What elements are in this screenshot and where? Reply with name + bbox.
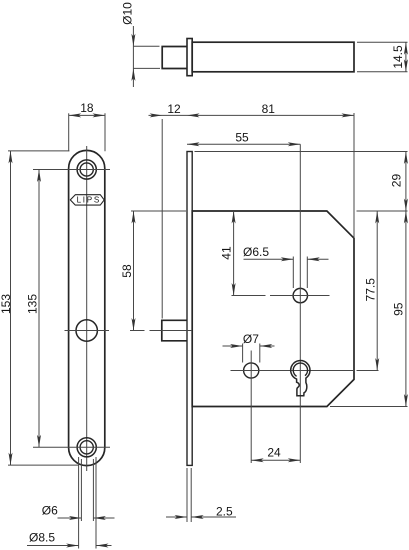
dimension 24 (hole spacing) — [251, 459, 300, 461]
top view: deadbolt nose (round bolt, side profile) — [162, 47, 187, 69]
follower hole O6.5 — [293, 288, 307, 302]
dimension 12 and 81 dimension line — [149, 114, 355, 116]
svg-text:Ø6: Ø6 — [42, 504, 58, 518]
top screw hole outer circle — [77, 160, 96, 179]
fixing hole O7 — [244, 363, 259, 378]
dimension O6 (inner screw hole dia) extension lines — [80, 459, 82, 521]
svg-text:2.5: 2.5 — [216, 504, 233, 518]
faceplate vertical centerline — [86, 146, 88, 471]
dimension 12 (bolt throw) extension line — [161, 119, 163, 319]
dimension O8.5 — [27, 545, 79, 547]
middle hole centerline — [65, 330, 110, 332]
dimension 2.5 (faceplate thickness) extension lines — [186, 468, 188, 522]
svg-text:12: 12 — [167, 102, 181, 116]
svg-text:Ø8.5: Ø8.5 — [29, 531, 55, 545]
dimension O10 (bolt diameter) — [132, 26, 134, 87]
svg-text:Ø6.5: Ø6.5 — [243, 245, 269, 259]
svg-text:95: 95 — [392, 302, 406, 316]
bottom hole centerline — [33, 446, 110, 448]
dimension 29 (faceplate top to case top) — [404, 152, 408, 165]
latch bolt protruding through faceplate — [162, 320, 187, 341]
keyhole outer profile with key bit stem — [291, 361, 310, 396]
dimension 95 (case height) — [404, 211, 408, 224]
dimension 18 (faceplate width) — [68, 113, 70, 151]
extension line from case top — [357, 210, 408, 212]
svg-text:77.5: 77.5 — [364, 278, 378, 302]
top view: faceplate edge-on (flange) — [187, 39, 192, 76]
keyhole horizontal centerline — [231, 370, 356, 372]
svg-text:153: 153 — [0, 294, 13, 314]
dimension 55 (backset) — [187, 143, 300, 145]
top screw hole inner circle — [80, 163, 93, 176]
faceplate outline (stadium shape) — [69, 150, 105, 465]
svg-text:18: 18 — [80, 101, 94, 115]
dimension 58 (faceplate top area to bolt centerline) — [131, 210, 186, 212]
bolt centerline — [130, 330, 145, 332]
dimension O7 (fixing hole dia) — [242, 344, 244, 363]
svg-text:41: 41 — [219, 246, 233, 260]
keyhole inner circle — [293, 363, 307, 376]
svg-text:LIPS: LIPS — [77, 196, 101, 205]
svg-text:29: 29 — [390, 174, 404, 188]
fixing hole vertical centerline — [250, 351, 252, 464]
svg-text:Ø7: Ø7 — [243, 332, 259, 346]
dimension 77.5 (case top to keyhole center) — [376, 211, 378, 371]
dimension O6 — [58, 517, 82, 519]
dimension 153 (faceplate length) — [8, 150, 69, 152]
svg-text:135: 135 — [25, 294, 39, 314]
keyhole centerline extension to 77.5 dimension — [357, 370, 379, 372]
LIPS logo hexagon — [70, 195, 104, 205]
dimension 41 (case top to follower center) — [233, 211, 235, 296]
lock case outline with chamfered right corners — [192, 211, 354, 407]
bottom screw hole inner circle — [80, 441, 93, 454]
follower horizontal centerline — [232, 295, 266, 297]
dimension O6.5 (follower hole dia) — [292, 257, 294, 289]
dimension 135 (screw hole spacing) — [38, 170, 40, 448]
dimension O8.5 (outer screw hole dia) extension lines — [78, 457, 80, 549]
bottom screw hole outer circle — [77, 438, 96, 457]
middle latch hole — [76, 320, 97, 341]
extension line from case bottom — [330, 406, 408, 408]
faceplate edge-on strip — [187, 152, 192, 466]
svg-text:24: 24 — [267, 446, 281, 460]
dimension 81 (case depth) — [342, 113, 355, 117]
top view: lock case body seen from above — [192, 42, 354, 72]
extension line from faceplate top — [195, 151, 408, 153]
dimension 29 and 95 dimension line — [405, 152, 407, 407]
follower vertical centerline — [299, 144, 301, 463]
top hole centerline — [33, 169, 110, 171]
svg-text:Ø10: Ø10 — [120, 2, 134, 25]
dimension 14.5 (case thickness) — [357, 41, 408, 43]
dimension 2.5 — [166, 516, 187, 518]
svg-text:58: 58 — [120, 264, 134, 278]
svg-text:55: 55 — [235, 131, 249, 145]
svg-text:81: 81 — [262, 102, 276, 116]
svg-text:14.5: 14.5 — [391, 45, 405, 69]
